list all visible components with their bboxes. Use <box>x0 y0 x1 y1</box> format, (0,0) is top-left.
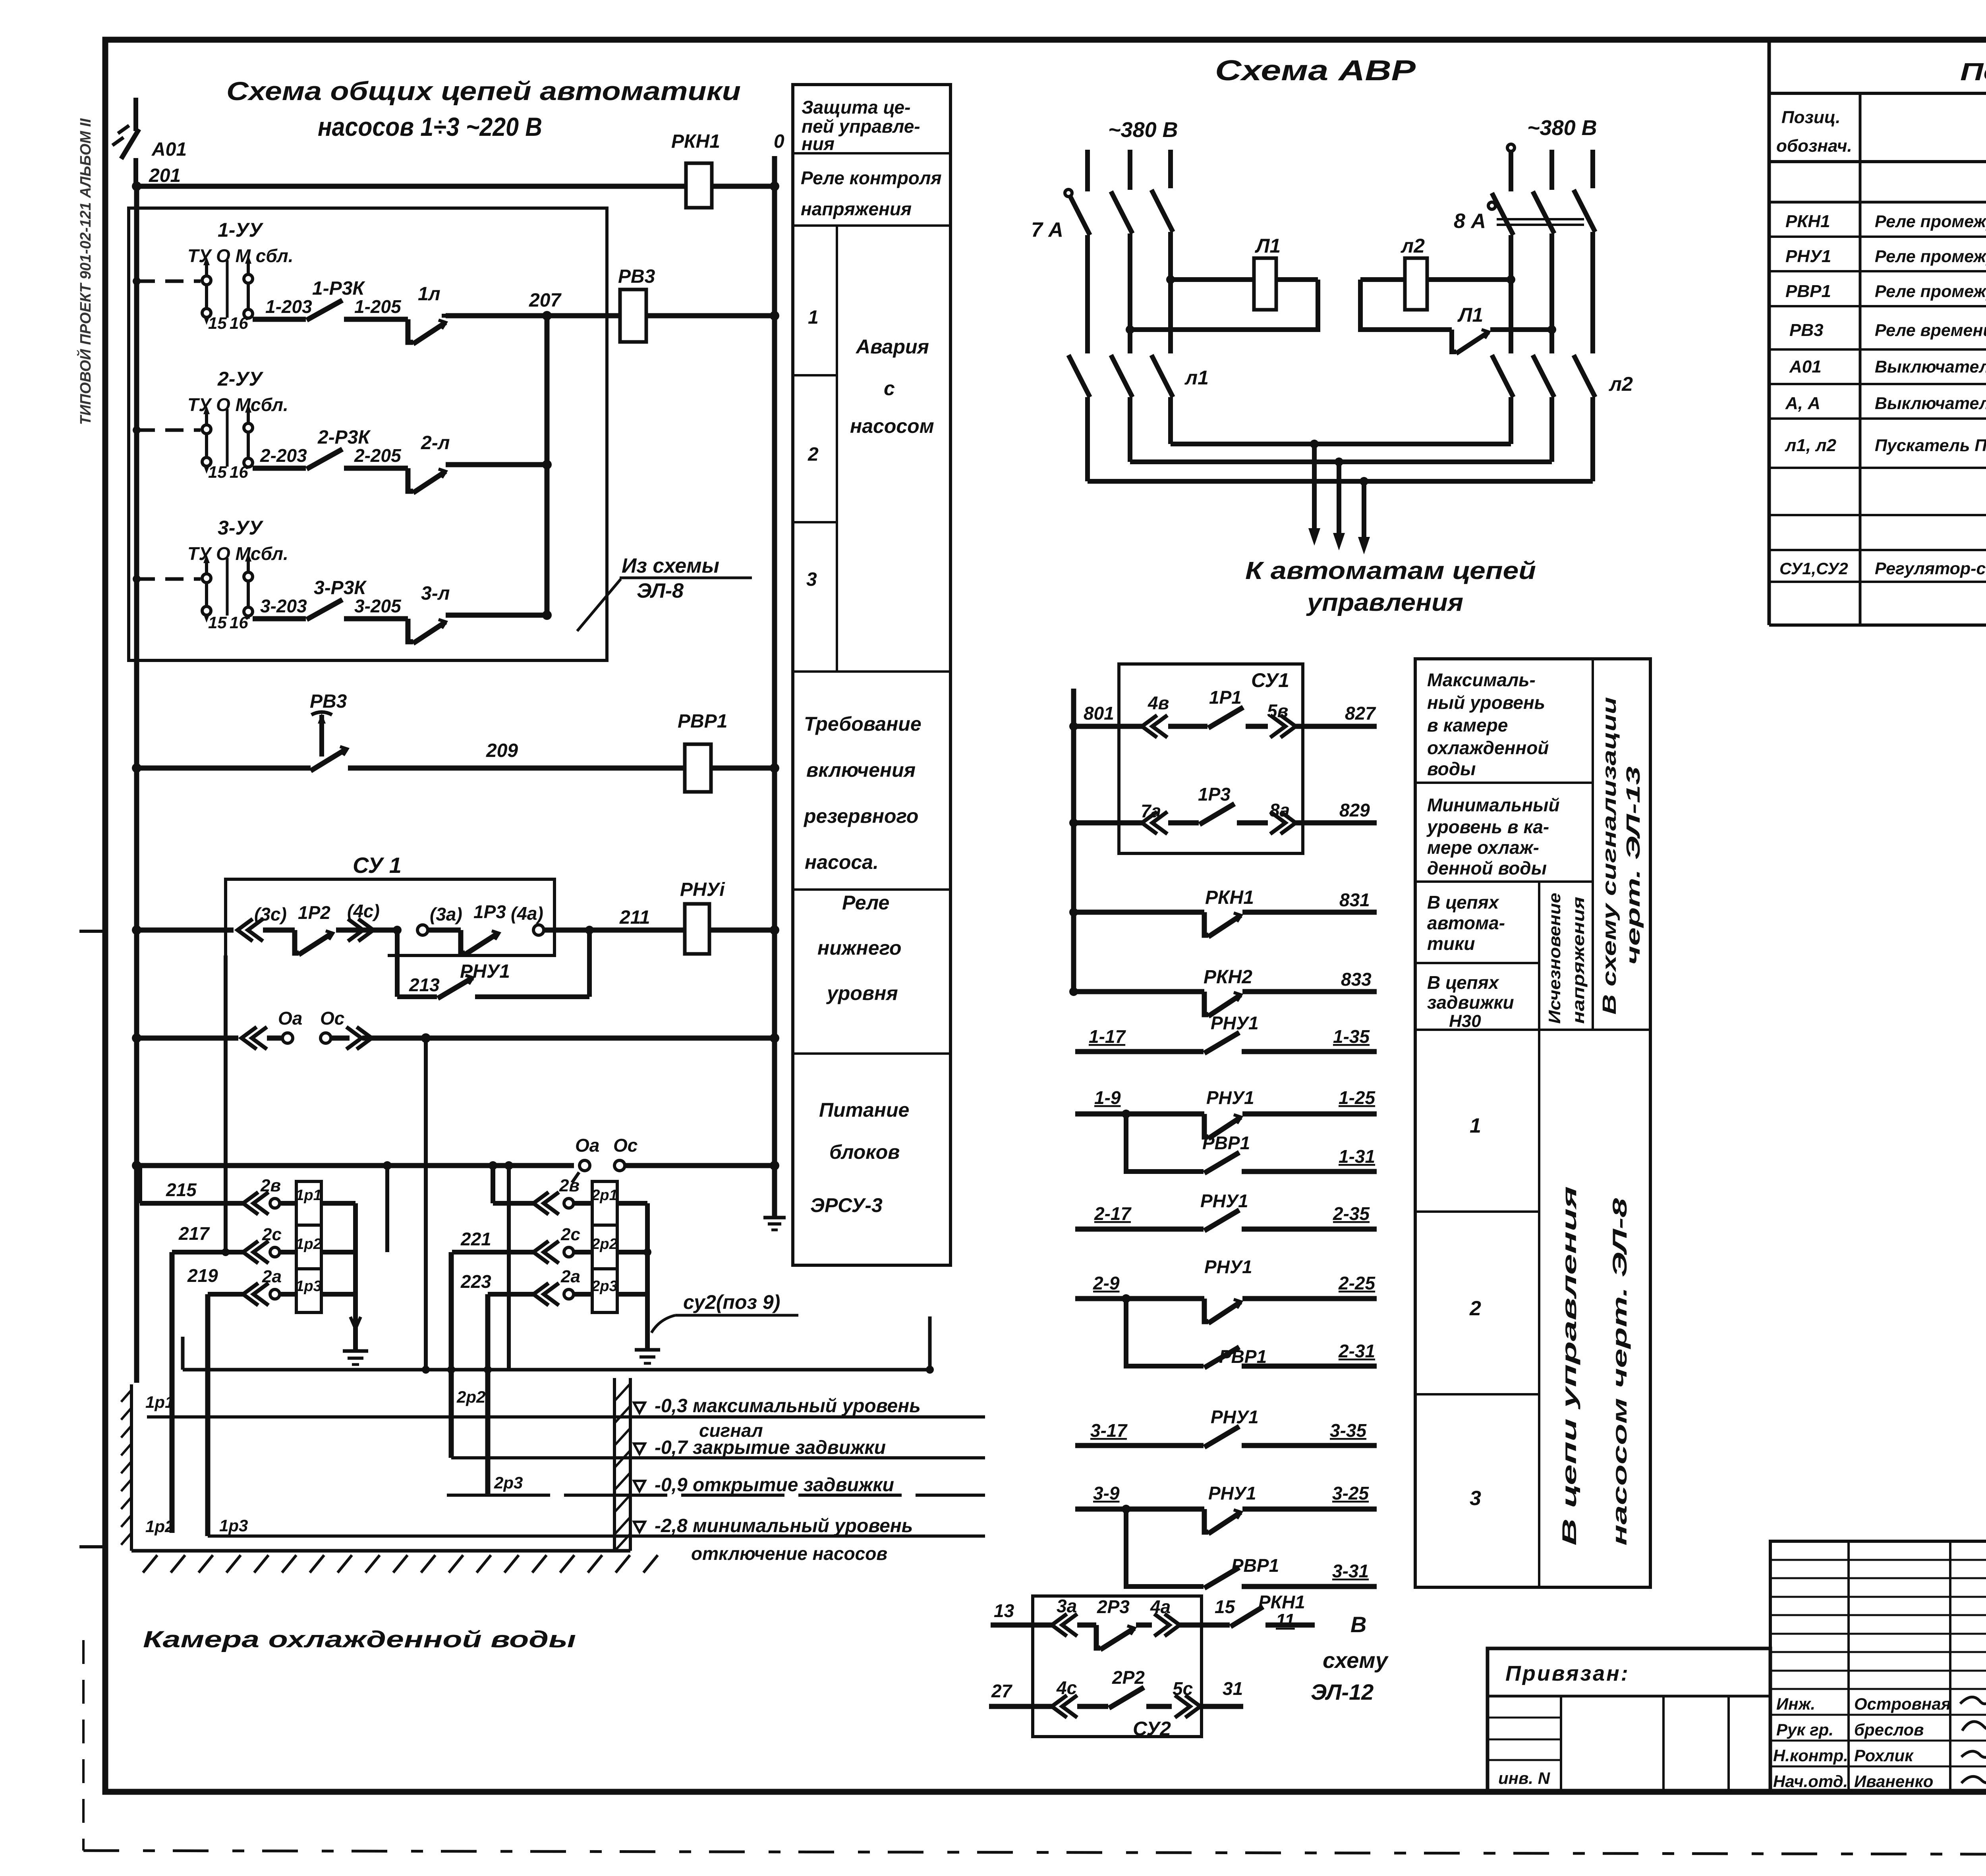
wire row1 <box>253 317 306 322</box>
svg-text:РНУі: РНУі <box>680 879 725 900</box>
svg-text:27: 27 <box>991 1681 1013 1701</box>
relay coil РВ3 <box>620 290 646 342</box>
wire bypass right <box>475 994 589 999</box>
svg-text:К автоматам цепей: К автоматам цепей <box>1245 557 1536 585</box>
svg-text:насосов 1÷3 ~220 В: насосов 1÷3 ~220 В <box>318 112 542 141</box>
collector wire <box>183 1368 930 1372</box>
tank floor <box>131 1549 630 1553</box>
connector Ос <box>321 1033 331 1043</box>
node row2 stub <box>133 426 141 434</box>
svg-text:201: 201 <box>149 165 181 186</box>
svg-text:Защита це-: Защита це- <box>802 97 910 118</box>
svg-text:Исчезновение: Исчезновение <box>1545 893 1564 1024</box>
svg-text:2: 2 <box>808 444 819 465</box>
section По месту <box>1769 549 1986 551</box>
svg-text:Привязан:: Привязан: <box>1505 1662 1630 1685</box>
wire row3 <box>253 616 306 621</box>
wire 215 <box>140 1201 244 1206</box>
sensor coil 2р3 <box>592 1269 617 1312</box>
svg-text:л2: л2 <box>1609 373 1633 395</box>
wire out of box <box>544 928 685 933</box>
signature table <box>1770 1541 1986 1792</box>
row 833 РКН2 <box>1069 987 1078 996</box>
svg-text:А01: А01 <box>151 139 187 160</box>
sensor coil 2р2 <box>592 1225 617 1269</box>
svg-text:РНУ1: РНУ1 <box>1211 1407 1259 1427</box>
chevron <box>243 1241 269 1263</box>
svg-text:1-35: 1-35 <box>1333 1026 1370 1047</box>
svg-text:2-205: 2-205 <box>354 445 402 466</box>
svg-text:Нач.отд.: Нач.отд. <box>1773 1772 1848 1791</box>
wire row1 to node 207 <box>442 314 446 318</box>
phases right drop to collectors <box>1509 397 1513 444</box>
electrode rod 1р3 <box>205 1294 211 1536</box>
row РНУ1 <box>1769 270 1986 272</box>
chevron in <box>241 1027 267 1049</box>
selector pin ТУ <box>205 262 208 318</box>
svg-text:Реле промежуточное РПУ-1-963.Т: Реле промежуточное РПУ-1-963.ТУ16-523.02… <box>1875 247 1986 266</box>
svg-text:3-17: 3-17 <box>1090 1420 1128 1441</box>
svg-text:1: 1 <box>808 307 819 328</box>
svg-text:ТУ О Мсбл.: ТУ О Мсбл. <box>187 543 288 564</box>
svg-text:ЭЛ-12: ЭЛ-12 <box>1311 1679 1374 1704</box>
contact 2Р3 (step) <box>1096 1625 1100 1648</box>
svg-text:в камере: в камере <box>1427 715 1508 735</box>
svg-text:Островная: Островная <box>1854 1695 1951 1713</box>
svg-text:РНУ1: РНУ1 <box>460 961 510 982</box>
wire row2 to vertical <box>446 462 547 467</box>
svg-text:3-УУ: 3-УУ <box>218 517 264 539</box>
wire dashed stub row1 <box>137 280 201 283</box>
wire to common <box>321 1292 355 1297</box>
wire to coil <box>280 1292 296 1297</box>
contact 2-Р3К <box>307 449 342 469</box>
branch РВР1 1-31 <box>1126 1114 1204 1172</box>
svg-text:16: 16 <box>230 463 248 481</box>
wire to common <box>321 1201 355 1206</box>
svg-text:с: с <box>884 377 895 400</box>
arrow tick on common <box>350 1317 361 1329</box>
svg-text:л2: л2 <box>1401 235 1425 257</box>
chevron <box>243 1283 269 1305</box>
phase lines right group middle <box>1509 235 1513 353</box>
outer + header <box>1768 40 1771 625</box>
svg-text:РНУ1: РНУ1 <box>1206 1087 1254 1108</box>
svg-text:Л1: Л1 <box>1255 235 1281 257</box>
svg-text:1-25: 1-25 <box>1339 1087 1376 1108</box>
wire row2 <box>253 466 306 471</box>
svg-text:3-25: 3-25 <box>1332 1483 1369 1504</box>
svg-text:А, А: А, А <box>1785 394 1820 413</box>
svg-text:827: 827 <box>1345 703 1376 724</box>
selector pin О <box>226 409 229 467</box>
svg-text:РНУ1: РНУ1 <box>1208 1483 1256 1504</box>
empty row <box>1769 514 1986 516</box>
wire riser 2в feed <box>491 1166 495 1203</box>
row А, А <box>1769 417 1986 420</box>
svg-text:РВР1: РВР1 <box>678 711 727 732</box>
svg-text:2а: 2а <box>560 1267 580 1286</box>
connector Ос <box>614 1160 625 1171</box>
sensor coil 2р1 <box>592 1181 617 1225</box>
svg-text:нижнего: нижнего <box>817 937 902 959</box>
svg-text:мере охлаж-: мере охлаж- <box>1427 837 1539 858</box>
svg-text:2р1: 2р1 <box>591 1187 617 1204</box>
svg-text:насоса.: насоса. <box>805 851 879 873</box>
annotation table: Защита цепей управления <box>793 85 950 1265</box>
svg-text:резервного: резервного <box>803 805 918 827</box>
svg-text:829: 829 <box>1339 800 1370 820</box>
wire row1 mid <box>344 317 408 322</box>
sensor coil 1р1 <box>296 1181 321 1225</box>
node on phase3 <box>1166 275 1175 284</box>
phase lines left group top <box>1085 150 1090 191</box>
mechanical link 8А <box>1497 218 1584 220</box>
svg-text:ния: ния <box>802 133 835 154</box>
node row1 stub <box>133 277 141 285</box>
svg-text:801: 801 <box>1084 703 1114 724</box>
svg-text:213: 213 <box>409 975 440 995</box>
svg-text:черт. ЭЛ-13: черт. ЭЛ-13 <box>1623 766 1644 965</box>
contact РКН1 <box>1231 1607 1263 1627</box>
selector pin О <box>226 260 229 318</box>
chevron <box>243 1192 269 1214</box>
svg-text:инв. N: инв. N <box>1498 1769 1551 1787</box>
svg-text:РКН1: РКН1 <box>1258 1592 1305 1612</box>
svg-text:Ос: Ос <box>320 1008 344 1029</box>
node 207 <box>542 311 552 320</box>
svg-text:Ос: Ос <box>613 1135 638 1156</box>
wire to coil <box>280 1250 296 1255</box>
svg-text:2-9: 2-9 <box>1093 1273 1120 1293</box>
wire left <box>137 1036 238 1041</box>
purpose table: уровни и цепи <box>1415 659 1650 1587</box>
svg-text:831: 831 <box>1339 890 1370 910</box>
contact РНУ1 <box>438 978 473 998</box>
node left bus <box>132 1033 141 1043</box>
row А01 <box>1769 383 1986 385</box>
svg-text:207: 207 <box>529 290 562 311</box>
svg-text:В цепи управления: В цепи управления <box>1558 1186 1580 1546</box>
svg-text:16: 16 <box>230 314 248 332</box>
svg-text:2с: 2с <box>560 1225 580 1244</box>
svg-text:РКН1: РКН1 <box>1205 887 1254 908</box>
svg-text:тики: тики <box>1427 933 1475 954</box>
svg-text:управления: управления <box>1306 589 1463 616</box>
svg-text:охлажденной: охлажденной <box>1427 737 1549 758</box>
relay coil РНУ1 <box>685 904 709 954</box>
svg-text:1-31: 1-31 <box>1339 1146 1375 1167</box>
svg-text:отключение насосов: отключение насосов <box>691 1543 887 1564</box>
svg-text:СУ2: СУ2 <box>1133 1718 1171 1740</box>
svg-text:1Р3: 1Р3 <box>473 901 506 922</box>
svg-text:-0,3 максимальный уровень: -0,3 максимальный уровень <box>655 1395 921 1417</box>
contact 2Р2 <box>1109 1687 1144 1708</box>
svg-text:2-31: 2-31 <box>1338 1341 1375 1361</box>
row РВР1 <box>1769 305 1986 307</box>
connector circle <box>417 925 428 935</box>
svg-text:16: 16 <box>230 613 248 632</box>
wire riser su2 unit <box>928 1316 932 1370</box>
tick <box>572 1172 579 1183</box>
wire row3 to vertical <box>446 613 547 618</box>
svg-text:л1, л2: л1, л2 <box>1785 436 1837 455</box>
svg-text:4в: 4в <box>1148 693 1169 713</box>
selector pin О <box>226 558 229 616</box>
svg-text:Позиц.: Позиц. <box>1781 108 1841 127</box>
svg-text:насосом черт. ЭЛ-8: насосом черт. ЭЛ-8 <box>1609 1198 1631 1546</box>
svg-text:1-17: 1-17 <box>1089 1026 1126 1047</box>
wire bus 201 <box>137 184 686 189</box>
svg-text:схему: схему <box>1323 1648 1389 1673</box>
phases left drop to collectors <box>1085 397 1090 481</box>
wire coil to 0 bus <box>646 313 775 318</box>
svg-text:2р3: 2р3 <box>494 1473 523 1492</box>
svg-text:Максималь-: Максималь- <box>1427 670 1536 690</box>
svg-text:РКН2: РКН2 <box>1204 967 1252 988</box>
node on left bus <box>132 925 141 935</box>
wire right <box>625 1163 775 1168</box>
wire riser x=1281 <box>507 1166 511 1370</box>
connector Оа <box>580 1160 590 1171</box>
svg-text:ный уровень: ный уровень <box>1427 692 1545 713</box>
wire vertical from node 207 <box>545 316 550 619</box>
svg-text:1: 1 <box>1470 1114 1481 1137</box>
collector wire 1 <box>1171 442 1511 446</box>
svg-text:3-31: 3-31 <box>1332 1561 1369 1581</box>
wire <box>263 928 295 933</box>
svg-text:-0,7 закрытие задвижки: -0,7 закрытие задвижки <box>655 1437 886 1458</box>
box СУ1 <box>226 879 554 955</box>
wire left bus vertical <box>134 186 139 1383</box>
svg-text:Инж.: Инж. <box>1776 1695 1815 1713</box>
svg-text:Требование: Требование <box>804 713 922 735</box>
connector <box>270 1247 280 1257</box>
sensor coil 1р2 <box>296 1225 321 1269</box>
ground under 2р block <box>635 1348 660 1352</box>
svg-text:Реле промежуточное РПУ-1-965.Т: Реле промежуточное РПУ-1-965.ТУ16-523.02… <box>1875 212 1986 231</box>
wire vertical x=1072 <box>424 1038 428 1370</box>
ground 0-bus <box>763 1216 786 1220</box>
contact 3л (step) <box>408 619 413 642</box>
РНУ1 bypass branch <box>395 930 400 997</box>
svg-text:Реле: Реле <box>842 892 889 914</box>
svg-text:Н.контр.: Н.контр. <box>1773 1746 1848 1765</box>
svg-text:Реле контроля: Реле контроля <box>801 168 942 188</box>
contact 3-Р3К <box>307 600 342 620</box>
svg-text:217: 217 <box>178 1223 210 1244</box>
wire 217 <box>172 1250 244 1255</box>
svg-text:2-35: 2-35 <box>1333 1203 1370 1224</box>
wire to 0 bus <box>709 928 775 933</box>
selector pin М <box>247 262 250 319</box>
wire 209 left <box>137 766 311 771</box>
svg-text:215: 215 <box>166 1179 197 1200</box>
svg-text:-0,9 открытие задвижки: -0,9 открытие задвижки <box>655 1475 894 1496</box>
electrode rod 1р2 <box>170 1252 175 1533</box>
node left bus <box>132 1161 141 1170</box>
svg-text:ТУ О М сбл.: ТУ О М сбл. <box>187 245 294 266</box>
svg-text:Из схемы: Из схемы <box>622 554 719 577</box>
sensor coil 1р3 <box>296 1269 321 1312</box>
wire long <box>137 1163 574 1168</box>
breaker A01 <box>133 98 138 131</box>
contact 1л (step) <box>408 319 413 342</box>
box of pump control groups <box>129 208 607 660</box>
svg-text:Схема общих цепей автоматик: Схема общих цепей автоматики <box>226 76 741 106</box>
chevron out <box>346 1027 372 1049</box>
contactor blades Л1 (lower left) <box>1068 355 1090 397</box>
collector wire 3 <box>1088 479 1593 484</box>
svg-text:1л: 1л <box>418 284 440 305</box>
svg-text:2в: 2в <box>559 1176 580 1195</box>
svg-text:2р3: 2р3 <box>591 1278 617 1295</box>
wire 0 bus vertical <box>772 156 777 1216</box>
electrode rod 2р3 <box>485 1294 491 1495</box>
svg-text:3: 3 <box>1470 1487 1481 1510</box>
wire 223 row <box>488 1292 534 1297</box>
electrode rod 2р2 <box>449 1252 454 1458</box>
svg-text:напряжения: напряжения <box>1569 897 1588 1024</box>
svg-text:-2,8 минимальный уровень: -2,8 минимальный уровень <box>655 1515 913 1536</box>
wire 801 bus <box>1071 689 1076 992</box>
svg-text:4с: 4с <box>1056 1677 1077 1698</box>
phase lines right group top <box>1509 150 1513 191</box>
svg-text:РВР1: РВР1 <box>1202 1133 1250 1153</box>
svg-text:15: 15 <box>208 613 227 632</box>
svg-text:2с: 2с <box>262 1225 282 1244</box>
svg-text:В цепях: В цепях <box>1427 892 1500 913</box>
svg-text:2в: 2в <box>260 1176 281 1195</box>
svg-text:2-л: 2-л <box>421 432 450 454</box>
signature scribbles <box>1960 1692 1986 1704</box>
svg-text:РНУ1: РНУ1 <box>1211 1013 1259 1033</box>
svg-text:2р2: 2р2 <box>591 1236 617 1253</box>
svg-text:В: В <box>1350 1612 1366 1637</box>
wire 219 <box>208 1292 244 1297</box>
svg-text:РНУ1: РНУ1 <box>1200 1191 1248 1211</box>
svg-text:напряжения: напряжения <box>801 199 912 219</box>
svg-text:2-УУ: 2-УУ <box>217 368 264 390</box>
svg-text:Камера охлажденной воды: Камера охлажденной воды <box>143 1627 576 1652</box>
contactor blades Л2 (lower right) <box>1492 355 1513 397</box>
contact 1Р3 <box>1200 804 1234 824</box>
row 827 <box>1069 722 1078 731</box>
Привязан box <box>1488 1648 1770 1792</box>
level -0,7 line <box>451 1456 985 1459</box>
svg-text:2Р3: 2Р3 <box>1097 1596 1130 1617</box>
svg-text:РВР1: РВР1 <box>1785 282 1831 301</box>
svg-text:задвижки: задвижки <box>1427 992 1514 1013</box>
svg-text:3-203: 3-203 <box>260 596 307 616</box>
wire to 0 bus <box>711 766 775 771</box>
svg-text:15: 15 <box>1215 1596 1236 1617</box>
contact Л1 (NC in Л2 circuit) <box>1452 330 1456 352</box>
node on left bus <box>132 763 141 773</box>
coil Л1 <box>1254 258 1276 310</box>
connector circle out <box>533 925 544 935</box>
svg-text:А01: А01 <box>1789 357 1822 376</box>
wire 221 row <box>452 1250 534 1255</box>
ground under 1р block <box>343 1349 368 1353</box>
left thin sheet edge (partial) <box>82 1640 85 1851</box>
svg-text:3а: 3а <box>1057 1596 1077 1616</box>
wire right <box>362 1036 775 1041</box>
svg-text:РКН1: РКН1 <box>1785 212 1830 231</box>
svg-text:7 А: 7 А <box>1031 218 1063 241</box>
svg-text:1Р3: 1Р3 <box>1198 784 1231 805</box>
collector wire 2 <box>1130 459 1552 464</box>
svg-text:1р3: 1р3 <box>219 1516 248 1535</box>
wire <box>428 928 461 933</box>
svg-text:1р1: 1р1 <box>296 1187 321 1204</box>
svg-text:3-9: 3-9 <box>1093 1483 1120 1504</box>
node row3 stub <box>133 575 141 583</box>
svg-text:3: 3 <box>806 569 817 590</box>
svg-text:В схему сигнализации: В схему сигнализации <box>1599 697 1620 1015</box>
tank right wall <box>613 1378 616 1551</box>
connector Оа <box>282 1033 293 1043</box>
svg-text:Перечень элементов: Перечень элементов <box>1960 58 1986 86</box>
wire су1 left edge down <box>224 955 228 1252</box>
svg-text:Выключатель А63-МУ ;ТУ16 522.: Выключатель А63-МУ ;ТУ16 522. 110-72 <box>1875 357 1986 376</box>
svg-text:Регулятор-сигнализатор уровня: Регулятор-сигнализатор уровня ЭРСУ-3 <box>1875 559 1986 578</box>
svg-text:Авария: Авария <box>855 336 929 358</box>
leader Из схемы ЭЛ-8 <box>577 579 621 631</box>
wire from circle <box>331 1036 350 1041</box>
svg-text:1р2: 1р2 <box>145 1517 174 1536</box>
row Л1, Л2 <box>1769 467 1986 469</box>
svg-text:1Р1: 1Р1 <box>1209 687 1242 708</box>
svg-text:ТИПОВОЙ ПРОЕКТ 901-02-121 АЛЬБ: ТИПОВОЙ ПРОЕКТ 901-02-121 АЛЬБОМ II <box>76 118 94 425</box>
svg-text:~380 В: ~380 В <box>1527 116 1597 140</box>
svg-text:РВ3: РВ3 <box>310 691 347 712</box>
svg-text:уровня: уровня <box>826 982 898 1004</box>
svg-text:2-203: 2-203 <box>260 445 307 466</box>
wire riser x=975 <box>385 1166 389 1252</box>
svg-text:1р1: 1р1 <box>145 1393 174 1411</box>
svg-text:1-УУ: 1-УУ <box>218 219 264 241</box>
wire 211 left <box>137 928 234 933</box>
svg-text:1р2: 1р2 <box>296 1236 321 1253</box>
svg-text:Схема АВР: Схема АВР <box>1215 55 1416 87</box>
svg-text:Оа: Оа <box>278 1008 302 1029</box>
contact 1Р3 (step) <box>461 930 465 953</box>
svg-text:СУ1: СУ1 <box>1251 669 1289 691</box>
contact 1Р2 (step) <box>295 930 299 953</box>
selector pin М <box>247 560 250 619</box>
svg-text:РНУ1: РНУ1 <box>1204 1256 1252 1277</box>
wire coil Л1 circuit <box>1171 277 1254 282</box>
svg-text:СУ 1: СУ 1 <box>353 853 402 878</box>
svg-text:(3с): (3с) <box>254 904 287 924</box>
svg-text:(3а): (3а) <box>430 904 462 924</box>
phase lines left group middle <box>1085 235 1090 353</box>
wire dashed stub row3 <box>137 577 201 581</box>
svg-text:1Р2: 1Р2 <box>298 902 330 923</box>
svg-text:~380 В: ~380 В <box>1108 118 1178 142</box>
svg-text:209: 209 <box>486 740 518 761</box>
node 201 <box>132 181 141 191</box>
svg-text:833: 833 <box>1341 969 1372 990</box>
svg-text:3-205: 3-205 <box>354 596 402 616</box>
selector pin ТУ <box>205 560 208 616</box>
bottom dashed sheet edge <box>83 1851 1986 1855</box>
contact 2л (step) <box>408 468 413 491</box>
svg-text:223: 223 <box>460 1271 491 1292</box>
svg-text:включения: включения <box>806 759 916 781</box>
svg-text:1р3: 1р3 <box>296 1278 321 1295</box>
